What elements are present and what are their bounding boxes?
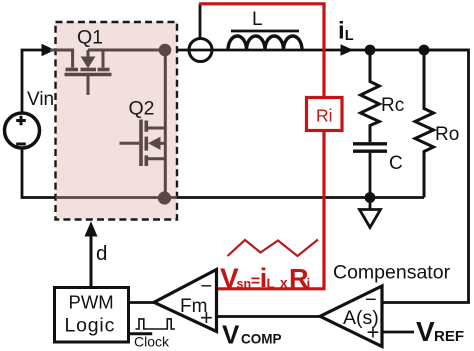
svg-text:Q2: Q2: [129, 98, 155, 120]
transistor Q2: [120, 50, 166, 198]
svg-text:=: =: [251, 273, 260, 290]
red sense trace bottom: [217, 131, 325, 289]
inductor L: [228, 31, 302, 50]
wire output bottom: [370, 196, 424, 199]
svg-text:L: L: [267, 276, 275, 291]
sawtooth waveform Vsn: [228, 240, 319, 257]
resistor Rc: [361, 50, 380, 142]
node output top Ro: [419, 45, 430, 56]
wire PWM to Fm: [129, 301, 155, 304]
comparator Fm: [154, 270, 217, 332]
svg-text:Clock: Clock: [134, 334, 170, 350]
sense resistor Ri: [307, 98, 343, 131]
PWM logic block: [55, 288, 129, 343]
node ground: [365, 192, 376, 203]
arrow d: [90, 234, 93, 286]
svg-text:i: i: [338, 18, 345, 45]
shaded switch-cell box: [56, 22, 178, 220]
svg-text:Logic: Logic: [65, 315, 116, 337]
label Vsn = iL x Ri: [220, 263, 310, 294]
svg-text:C: C: [389, 153, 403, 174]
svg-text:x: x: [280, 276, 288, 291]
node switch output: [159, 44, 172, 57]
svg-text:PWM: PWM: [69, 292, 114, 313]
svg-text:V: V: [416, 316, 435, 347]
svg-text:d: d: [96, 242, 107, 265]
wire clock input stub: [129, 332, 153, 335]
wire bottom rail box to ground node: [177, 196, 370, 199]
arrow iL: [341, 44, 354, 55]
resistor Ro: [415, 50, 434, 198]
svg-text:V: V: [222, 320, 240, 350]
svg-text:Ro: Ro: [435, 124, 459, 145]
svg-text:COMP: COMP: [241, 332, 282, 347]
svg-text:sn: sn: [237, 277, 252, 291]
svg-text:Vin: Vin: [27, 89, 54, 110]
svg-text:−: −: [365, 289, 377, 311]
svg-text:i: i: [307, 276, 311, 291]
svg-text:−: −: [201, 276, 213, 298]
wire Vin bottom rail: [22, 148, 56, 198]
svg-text:+: +: [367, 320, 380, 345]
red sense trace top: [199, 4, 324, 98]
wire switch node to output node: [177, 49, 469, 52]
transistor Q1: [50, 50, 165, 95]
wire feedback: [382, 50, 469, 303]
svg-text:L: L: [345, 28, 354, 44]
arrow into switch cell: [42, 44, 56, 56]
svg-text:+: +: [200, 305, 213, 330]
op-amp A(s) compensator: [320, 286, 382, 347]
current sensor: [189, 39, 212, 62]
node output top Rc: [365, 45, 376, 56]
wire bottom rail inside box: [56, 196, 178, 199]
svg-text:Ri: Ri: [316, 106, 333, 126]
svg-text:Compensator: Compensator: [333, 262, 451, 284]
wire Vref input: [382, 331, 414, 334]
voltage source Vin: [5, 113, 40, 148]
wire Vcomp: [217, 315, 321, 318]
wire Vin top to box: [22, 50, 50, 113]
wire sensor to red trace: [199, 4, 202, 39]
ground: [369, 198, 372, 210]
node Q2 source on rail: [158, 191, 171, 204]
capacitor C: [353, 142, 387, 145]
svg-text:Q1: Q1: [77, 27, 103, 49]
svg-text:Rc: Rc: [381, 95, 404, 116]
clock waveform: [136, 319, 176, 329]
svg-text:REF: REF: [434, 328, 464, 345]
svg-text:L: L: [252, 9, 263, 30]
